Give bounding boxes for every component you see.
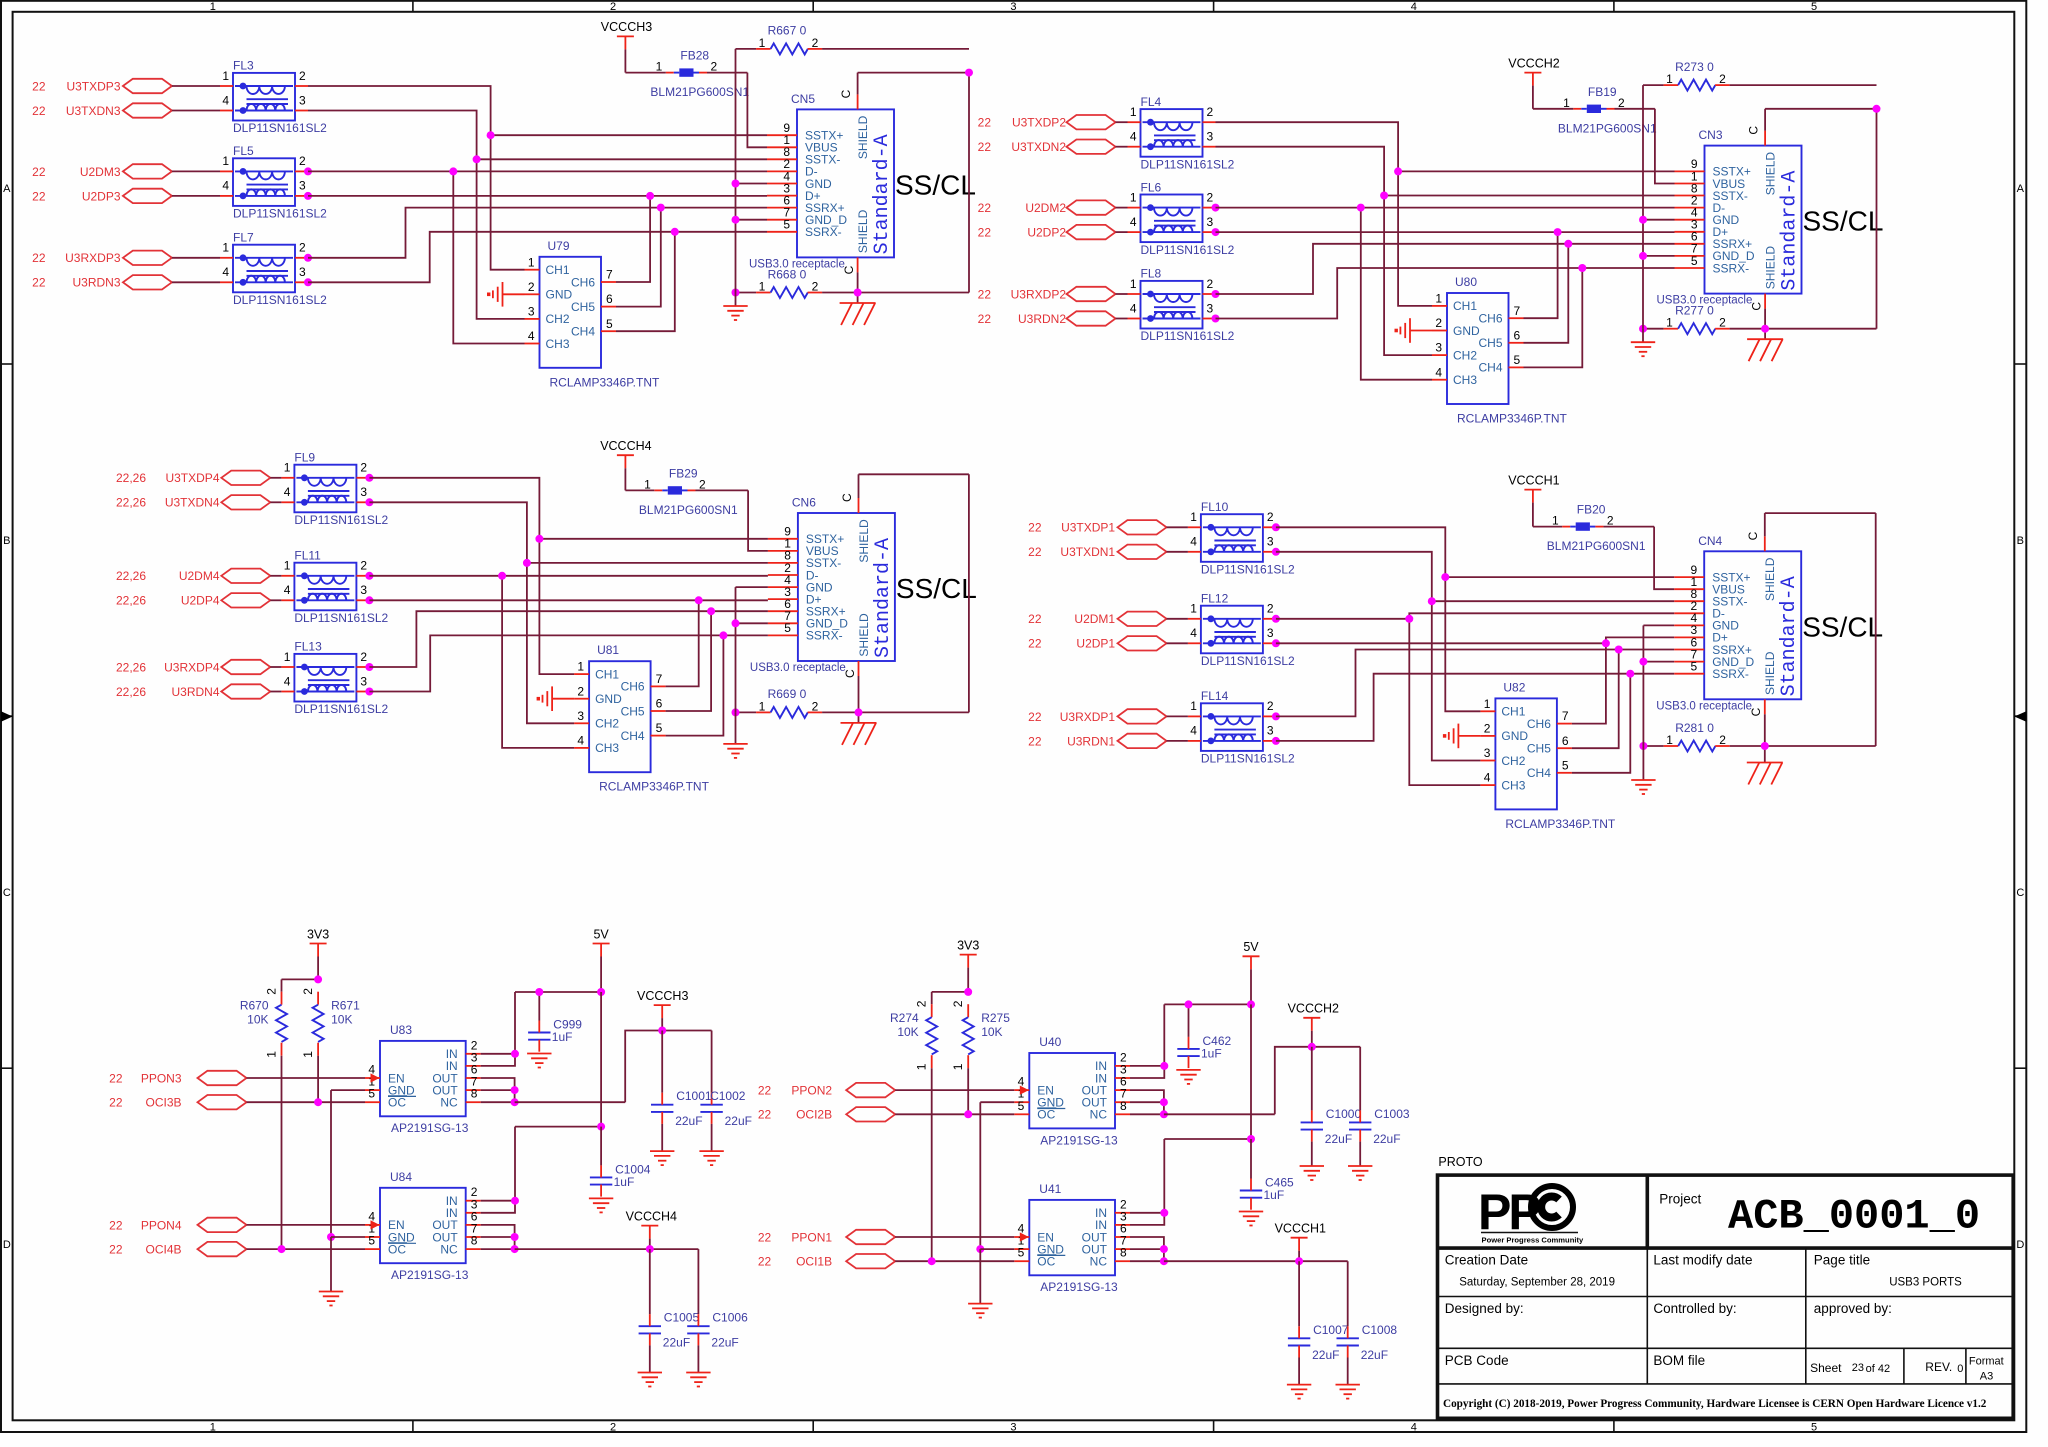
svg-text:8: 8 <box>1120 1099 1127 1113</box>
svg-text:1: 1 <box>284 650 291 664</box>
svg-text:1: 1 <box>759 36 766 50</box>
svg-text:6: 6 <box>1514 328 1521 342</box>
svg-text:2: 2 <box>915 1000 929 1007</box>
svg-text:U3RXDP1: U3RXDP1 <box>1060 710 1116 724</box>
svg-text:SHIELD: SHIELD <box>856 115 870 159</box>
svg-text:2: 2 <box>299 241 306 255</box>
svg-text:3: 3 <box>1267 626 1274 640</box>
svg-text:22: 22 <box>109 1243 123 1257</box>
svg-text:CH4: CH4 <box>1478 361 1502 375</box>
svg-text:FL11: FL11 <box>294 549 321 563</box>
svg-text:U84: U84 <box>390 1170 412 1184</box>
svg-text:2: 2 <box>1267 699 1274 713</box>
svg-text:22: 22 <box>109 1218 123 1232</box>
svg-text:2: 2 <box>610 1 616 13</box>
svg-text:1: 1 <box>1130 190 1137 204</box>
svg-text:CH6: CH6 <box>621 680 645 694</box>
svg-text:4: 4 <box>1130 301 1137 315</box>
svg-text:22: 22 <box>758 1255 772 1269</box>
svg-text:FL7: FL7 <box>233 231 254 245</box>
svg-text:22: 22 <box>1028 710 1042 724</box>
svg-text:CH5: CH5 <box>1478 336 1502 350</box>
svg-text:22: 22 <box>1028 545 1042 559</box>
svg-text:1: 1 <box>951 1063 965 1070</box>
svg-text:SHIELD: SHIELD <box>1764 152 1778 196</box>
svg-text:4: 4 <box>222 265 229 279</box>
svg-text:C: C <box>3 887 11 899</box>
svg-text:4: 4 <box>1190 626 1197 640</box>
svg-text:DLP11SN161SL2: DLP11SN161SL2 <box>1201 654 1295 668</box>
svg-text:5: 5 <box>783 218 790 232</box>
svg-text:U80: U80 <box>1455 275 1477 289</box>
svg-text:SS/CL: SS/CL <box>1803 206 1884 237</box>
svg-text:CN6: CN6 <box>792 496 816 510</box>
svg-text:22: 22 <box>109 1071 123 1085</box>
svg-text:1uF: 1uF <box>1201 1046 1222 1060</box>
svg-text:22: 22 <box>1028 521 1042 535</box>
svg-text:Project: Project <box>1659 1191 1701 1206</box>
svg-text:1: 1 <box>222 154 229 168</box>
svg-text:U3RDN4: U3RDN4 <box>171 685 219 699</box>
svg-text:3: 3 <box>299 93 306 107</box>
svg-text:2: 2 <box>1207 105 1214 119</box>
svg-text:2: 2 <box>301 988 315 995</box>
svg-text:FL12: FL12 <box>1201 592 1229 606</box>
svg-text:C: C <box>840 493 854 502</box>
svg-text:22uF: 22uF <box>725 1114 752 1128</box>
svg-text:VCCCH3: VCCCH3 <box>601 20 652 34</box>
svg-text:U2DM1: U2DM1 <box>1074 612 1115 626</box>
svg-text:C1005: C1005 <box>664 1311 700 1325</box>
svg-text:DLP11SN161SL2: DLP11SN161SL2 <box>294 702 388 716</box>
svg-text:VCCCH4: VCCCH4 <box>626 1209 677 1223</box>
svg-text:Copyright (C) 2018-2019, Power: Copyright (C) 2018-2019, Power Progress … <box>1443 1398 1987 1410</box>
svg-text:2: 2 <box>265 988 279 995</box>
svg-text:1: 1 <box>577 660 584 674</box>
svg-text:CH1: CH1 <box>546 263 570 277</box>
svg-text:1: 1 <box>1130 277 1137 291</box>
svg-text:4: 4 <box>1411 1422 1417 1434</box>
svg-text:3: 3 <box>1267 724 1274 738</box>
svg-text:C: C <box>1747 126 1761 135</box>
svg-text:3: 3 <box>1207 130 1214 144</box>
svg-text:Format: Format <box>1969 1356 2004 1368</box>
svg-text:2: 2 <box>1207 190 1214 204</box>
svg-text:1uF: 1uF <box>1264 1188 1285 1202</box>
svg-text:3: 3 <box>1484 746 1491 760</box>
svg-text:3: 3 <box>1267 535 1274 549</box>
svg-text:Last modify date: Last modify date <box>1653 1253 1752 1268</box>
svg-text:U3TXDN2: U3TXDN2 <box>1011 140 1066 154</box>
svg-text:R274: R274 <box>890 1011 919 1025</box>
svg-text:8: 8 <box>1120 1246 1127 1260</box>
svg-text:1: 1 <box>265 1051 279 1058</box>
svg-text:RCLAMP3346P.TNT: RCLAMP3346P.TNT <box>1505 817 1615 831</box>
svg-text:DLP11SN161SL2: DLP11SN161SL2 <box>294 513 388 527</box>
svg-text:GND: GND <box>1501 729 1528 743</box>
svg-text:CH4: CH4 <box>571 325 595 339</box>
svg-text:CH5: CH5 <box>571 300 595 314</box>
svg-text:FL13: FL13 <box>294 640 322 654</box>
svg-text:VCCCH2: VCCCH2 <box>1288 1002 1339 1016</box>
svg-text:5: 5 <box>1691 254 1698 268</box>
svg-text:3: 3 <box>1010 1 1016 13</box>
svg-text:U2DM2: U2DM2 <box>1025 201 1066 215</box>
svg-text:2: 2 <box>699 477 706 491</box>
svg-text:2: 2 <box>1618 96 1625 110</box>
svg-text:C1006: C1006 <box>712 1311 748 1325</box>
svg-text:22: 22 <box>978 312 992 326</box>
svg-text:CH1: CH1 <box>595 667 619 681</box>
svg-text:22: 22 <box>978 226 992 240</box>
svg-text:PPON4: PPON4 <box>141 1218 182 1232</box>
svg-text:22: 22 <box>109 1096 123 1110</box>
svg-text:D: D <box>2016 1239 2024 1251</box>
svg-text:4: 4 <box>1130 130 1137 144</box>
svg-text:U3TXDP4: U3TXDP4 <box>165 471 219 485</box>
svg-text:2: 2 <box>812 699 819 713</box>
svg-text:C1008: C1008 <box>1362 1323 1398 1337</box>
svg-text:AP2191SG-13: AP2191SG-13 <box>1040 1280 1118 1294</box>
svg-text:USB3 PORTS: USB3 PORTS <box>1889 1276 1962 1288</box>
svg-text:1: 1 <box>1130 105 1137 119</box>
svg-text:NC: NC <box>1090 1255 1108 1269</box>
svg-text:Creation Date: Creation Date <box>1445 1253 1528 1268</box>
svg-text:VCCCH2: VCCCH2 <box>1508 56 1559 70</box>
svg-text:1: 1 <box>301 1051 315 1058</box>
svg-text:SHIELD: SHIELD <box>856 209 870 253</box>
svg-text:22uF: 22uF <box>711 1336 738 1350</box>
svg-text:R275: R275 <box>981 1011 1010 1025</box>
svg-text:1: 1 <box>222 69 229 83</box>
svg-text:5: 5 <box>1018 1246 1025 1260</box>
svg-text:FB29: FB29 <box>669 466 698 480</box>
svg-text:DLP11SN161SL2: DLP11SN161SL2 <box>1141 157 1235 171</box>
svg-text:2: 2 <box>1207 277 1214 291</box>
svg-text:22uF: 22uF <box>663 1336 690 1350</box>
svg-text:U3RXDP4: U3RXDP4 <box>164 660 220 674</box>
svg-text:Controlled by:: Controlled by: <box>1653 1301 1736 1316</box>
svg-text:U3RXDP2: U3RXDP2 <box>1011 287 1067 301</box>
svg-text:USB3.0 receptacle: USB3.0 receptacle <box>750 662 846 674</box>
svg-text:DLP11SN161SL2: DLP11SN161SL2 <box>294 611 388 625</box>
svg-text:3: 3 <box>1207 301 1214 315</box>
svg-text:PPON2: PPON2 <box>791 1084 832 1098</box>
svg-text:SHIELD: SHIELD <box>1763 651 1777 695</box>
svg-text:2: 2 <box>360 461 367 475</box>
svg-text:FL5: FL5 <box>233 144 254 158</box>
svg-text:DLP11SN161SL2: DLP11SN161SL2 <box>1141 329 1235 343</box>
svg-text:CH5: CH5 <box>1527 742 1551 756</box>
svg-text:22: 22 <box>32 79 46 93</box>
svg-text:CH5: CH5 <box>621 704 645 718</box>
svg-text:1: 1 <box>759 280 766 294</box>
svg-text:4: 4 <box>284 674 291 688</box>
svg-text:FL4: FL4 <box>1141 95 1162 109</box>
svg-text:FL8: FL8 <box>1141 267 1162 281</box>
svg-text:22: 22 <box>32 251 46 265</box>
svg-text:1: 1 <box>1484 697 1491 711</box>
svg-text:2: 2 <box>360 559 367 573</box>
svg-text:C: C <box>2016 887 2024 899</box>
svg-text:U79: U79 <box>548 239 570 253</box>
svg-text:U2DP4: U2DP4 <box>181 594 220 608</box>
svg-text:SHIELD: SHIELD <box>857 519 871 563</box>
svg-text:2: 2 <box>1719 72 1726 86</box>
svg-text:SHIELD: SHIELD <box>1763 557 1777 601</box>
svg-text:5: 5 <box>1811 1422 1817 1434</box>
svg-text:CN3: CN3 <box>1699 128 1723 142</box>
svg-text:Page title: Page title <box>1814 1253 1870 1268</box>
svg-text:1: 1 <box>528 255 535 269</box>
svg-text:5V: 5V <box>1243 940 1259 954</box>
svg-text:DLP11SN161SL2: DLP11SN161SL2 <box>233 207 327 221</box>
svg-text:3: 3 <box>299 179 306 193</box>
svg-text:SHIELD: SHIELD <box>857 613 871 657</box>
svg-text:OCI3B: OCI3B <box>145 1096 181 1110</box>
svg-text:4: 4 <box>284 583 291 597</box>
svg-text:2: 2 <box>1267 510 1274 524</box>
svg-text:FL14: FL14 <box>1201 689 1229 703</box>
svg-text:1: 1 <box>656 60 663 74</box>
svg-text:4: 4 <box>1411 1 1417 13</box>
svg-text:5: 5 <box>1562 758 1569 772</box>
svg-text:R667 0: R667 0 <box>768 24 807 38</box>
svg-text:CH6: CH6 <box>1478 312 1502 326</box>
svg-text:22: 22 <box>758 1230 772 1244</box>
svg-text:5: 5 <box>368 1087 375 1101</box>
svg-text:A3: A3 <box>1980 1371 1993 1383</box>
svg-text:23: 23 <box>1852 1362 1864 1374</box>
svg-text:22: 22 <box>1028 637 1042 651</box>
svg-text:U3RXDP3: U3RXDP3 <box>65 251 121 265</box>
svg-text:C: C <box>839 89 853 98</box>
svg-text:22,26: 22,26 <box>116 594 146 608</box>
svg-text:FL6: FL6 <box>1141 180 1162 194</box>
svg-text:22: 22 <box>978 116 992 130</box>
svg-text:CH3: CH3 <box>595 741 619 755</box>
svg-text:U3TXDP3: U3TXDP3 <box>66 79 120 93</box>
svg-text:BLM21PG600SN1: BLM21PG600SN1 <box>1558 121 1657 135</box>
svg-text:22: 22 <box>978 140 992 154</box>
svg-text:AP2191SG-13: AP2191SG-13 <box>1040 1133 1118 1147</box>
svg-text:2: 2 <box>360 650 367 664</box>
svg-text:1: 1 <box>915 1063 929 1070</box>
svg-text:3: 3 <box>360 674 367 688</box>
svg-text:22,26: 22,26 <box>116 685 146 699</box>
svg-text:10K: 10K <box>897 1025 918 1039</box>
svg-text:22,26: 22,26 <box>116 660 146 674</box>
svg-text:1: 1 <box>644 477 651 491</box>
svg-text:FL3: FL3 <box>233 59 254 73</box>
svg-text:3: 3 <box>1207 215 1214 229</box>
svg-text:AP2191SG-13: AP2191SG-13 <box>391 1121 469 1135</box>
svg-text:DLP11SN161SL2: DLP11SN161SL2 <box>233 121 327 135</box>
svg-text:1: 1 <box>1666 733 1673 747</box>
svg-text:Standard-A: Standard-A <box>871 134 894 254</box>
svg-text:3V3: 3V3 <box>307 927 329 941</box>
svg-text:OC: OC <box>1037 1108 1055 1122</box>
svg-text:8: 8 <box>471 1087 478 1101</box>
svg-text:Sheet: Sheet <box>1810 1361 1842 1375</box>
svg-text:VCCCH1: VCCCH1 <box>1275 1222 1326 1236</box>
svg-text:2: 2 <box>1435 316 1442 330</box>
svg-text:2: 2 <box>1719 316 1726 330</box>
svg-text:1uF: 1uF <box>552 1030 573 1044</box>
svg-text:1: 1 <box>210 1422 216 1434</box>
svg-text:7: 7 <box>1562 709 1569 723</box>
svg-text:SSRX-: SSRX- <box>1712 667 1749 681</box>
svg-text:0: 0 <box>1957 1363 1963 1375</box>
svg-text:PPON1: PPON1 <box>791 1230 832 1244</box>
svg-text:1: 1 <box>1666 72 1673 86</box>
svg-text:SS/CL: SS/CL <box>895 169 976 200</box>
svg-text:1: 1 <box>1435 292 1442 306</box>
svg-text:R670: R670 <box>240 999 269 1013</box>
svg-text:FB20: FB20 <box>1577 503 1606 517</box>
svg-text:4: 4 <box>528 329 535 343</box>
svg-text:CH1: CH1 <box>1501 705 1525 719</box>
svg-text:4: 4 <box>1435 365 1442 379</box>
svg-text:CH2: CH2 <box>1501 754 1525 768</box>
svg-text:2: 2 <box>951 1000 965 1007</box>
svg-text:2: 2 <box>610 1422 616 1434</box>
svg-text:R273 0: R273 0 <box>1675 60 1714 74</box>
svg-text:7: 7 <box>606 268 613 282</box>
svg-text:B: B <box>2017 535 2024 547</box>
svg-text:GND: GND <box>546 288 573 302</box>
svg-text:5: 5 <box>656 721 663 735</box>
svg-text:U3RDN1: U3RDN1 <box>1067 734 1115 748</box>
svg-text:3V3: 3V3 <box>957 938 979 952</box>
svg-text:FB28: FB28 <box>680 49 709 63</box>
svg-text:4: 4 <box>1484 771 1491 785</box>
svg-text:SSRX-: SSRX- <box>806 629 843 643</box>
svg-text:6: 6 <box>656 697 663 711</box>
svg-text:U41: U41 <box>1039 1182 1061 1196</box>
svg-text:8: 8 <box>471 1234 478 1248</box>
svg-text:6: 6 <box>1562 734 1569 748</box>
svg-text:SSRX-: SSRX- <box>805 225 842 239</box>
svg-text:1: 1 <box>1552 514 1559 528</box>
svg-text:U3TXDP1: U3TXDP1 <box>1061 521 1115 535</box>
svg-text:CH6: CH6 <box>1527 717 1551 731</box>
svg-text:1: 1 <box>284 461 291 475</box>
svg-text:22: 22 <box>1028 734 1042 748</box>
svg-text:DLP11SN161SL2: DLP11SN161SL2 <box>233 293 327 307</box>
svg-text:CH2: CH2 <box>546 312 570 326</box>
svg-text:U2DP2: U2DP2 <box>1027 226 1066 240</box>
svg-text:U2DM3: U2DM3 <box>80 165 121 179</box>
svg-text:5: 5 <box>368 1234 375 1248</box>
svg-text:RCLAMP3346P.TNT: RCLAMP3346P.TNT <box>550 375 660 389</box>
svg-text:R669 0: R669 0 <box>768 687 807 701</box>
svg-text:22uF: 22uF <box>675 1114 702 1128</box>
svg-text:R671: R671 <box>331 999 360 1013</box>
svg-text:GND: GND <box>595 692 622 706</box>
svg-text:NC: NC <box>1090 1108 1108 1122</box>
svg-text:U3RDN3: U3RDN3 <box>72 276 120 290</box>
svg-text:PCB Code: PCB Code <box>1445 1353 1509 1368</box>
svg-text:C1000: C1000 <box>1326 1107 1362 1121</box>
svg-text:10K: 10K <box>981 1025 1002 1039</box>
svg-text:FL9: FL9 <box>294 451 315 465</box>
svg-text:SS/CL: SS/CL <box>1802 611 1883 642</box>
svg-text:1: 1 <box>210 1 216 13</box>
svg-text:PPON3: PPON3 <box>141 1071 182 1085</box>
svg-text:U3TXDN3: U3TXDN3 <box>66 104 121 118</box>
svg-text:GND: GND <box>1453 324 1480 338</box>
svg-text:22,26: 22,26 <box>116 471 146 485</box>
svg-text:5: 5 <box>1514 353 1521 367</box>
svg-text:4: 4 <box>1190 724 1197 738</box>
svg-text:5V: 5V <box>593 927 609 941</box>
svg-text:U3TXDN4: U3TXDN4 <box>165 496 220 510</box>
svg-text:CH3: CH3 <box>546 337 570 351</box>
svg-text:Designed by:: Designed by: <box>1445 1301 1524 1316</box>
svg-text:RCLAMP3346P.TNT: RCLAMP3346P.TNT <box>599 780 709 794</box>
svg-text:OCI2B: OCI2B <box>796 1108 832 1122</box>
svg-text:3: 3 <box>360 485 367 499</box>
svg-text:4: 4 <box>222 179 229 193</box>
svg-text:R668 0: R668 0 <box>768 267 807 281</box>
svg-text:B: B <box>3 535 10 547</box>
svg-text:2: 2 <box>528 280 535 294</box>
svg-text:DLP11SN161SL2: DLP11SN161SL2 <box>1201 563 1295 577</box>
svg-text:22: 22 <box>32 276 46 290</box>
svg-text:C: C <box>1746 531 1760 540</box>
svg-text:of 42: of 42 <box>1866 1363 1890 1375</box>
svg-text:CH4: CH4 <box>1527 766 1551 780</box>
svg-text:SSRX-: SSRX- <box>1713 261 1750 275</box>
svg-text:OCI4B: OCI4B <box>145 1243 181 1257</box>
svg-text:22,26: 22,26 <box>116 569 146 583</box>
svg-text:PROTO: PROTO <box>1438 1155 1482 1169</box>
svg-text:22: 22 <box>32 165 46 179</box>
svg-text:C1003: C1003 <box>1374 1107 1410 1121</box>
svg-text:22uF: 22uF <box>1373 1132 1400 1146</box>
svg-text:OC: OC <box>388 1096 406 1110</box>
svg-text:U2DP1: U2DP1 <box>1076 637 1115 651</box>
svg-text:SS/CL: SS/CL <box>896 573 977 604</box>
svg-text:CN4: CN4 <box>1698 534 1722 548</box>
svg-text:1: 1 <box>1563 96 1570 110</box>
svg-text:7: 7 <box>1514 304 1521 318</box>
svg-text:DLP11SN161SL2: DLP11SN161SL2 <box>1201 752 1295 766</box>
svg-text:2: 2 <box>1607 514 1614 528</box>
svg-text:1: 1 <box>759 699 766 713</box>
svg-text:CH2: CH2 <box>1453 348 1477 362</box>
svg-text:A: A <box>3 183 11 195</box>
svg-text:3: 3 <box>1435 341 1442 355</box>
svg-text:OCI1B: OCI1B <box>796 1255 832 1269</box>
svg-text:C1002: C1002 <box>710 1089 746 1103</box>
svg-text:Power Progress Community: Power Progress Community <box>1482 1236 1584 1245</box>
svg-text:AP2191SG-13: AP2191SG-13 <box>391 1268 469 1282</box>
svg-text:7: 7 <box>656 672 663 686</box>
svg-text:CH3: CH3 <box>1501 778 1525 792</box>
svg-text:CH2: CH2 <box>595 717 619 731</box>
svg-text:3: 3 <box>577 709 584 723</box>
svg-text:R277 0: R277 0 <box>1675 304 1714 318</box>
svg-text:3: 3 <box>299 265 306 279</box>
svg-text:22uF: 22uF <box>1361 1348 1388 1362</box>
svg-text:2: 2 <box>299 69 306 83</box>
svg-text:1: 1 <box>1666 316 1673 330</box>
svg-text:5: 5 <box>606 317 613 331</box>
svg-text:22: 22 <box>978 201 992 215</box>
svg-text:1: 1 <box>1190 602 1197 616</box>
